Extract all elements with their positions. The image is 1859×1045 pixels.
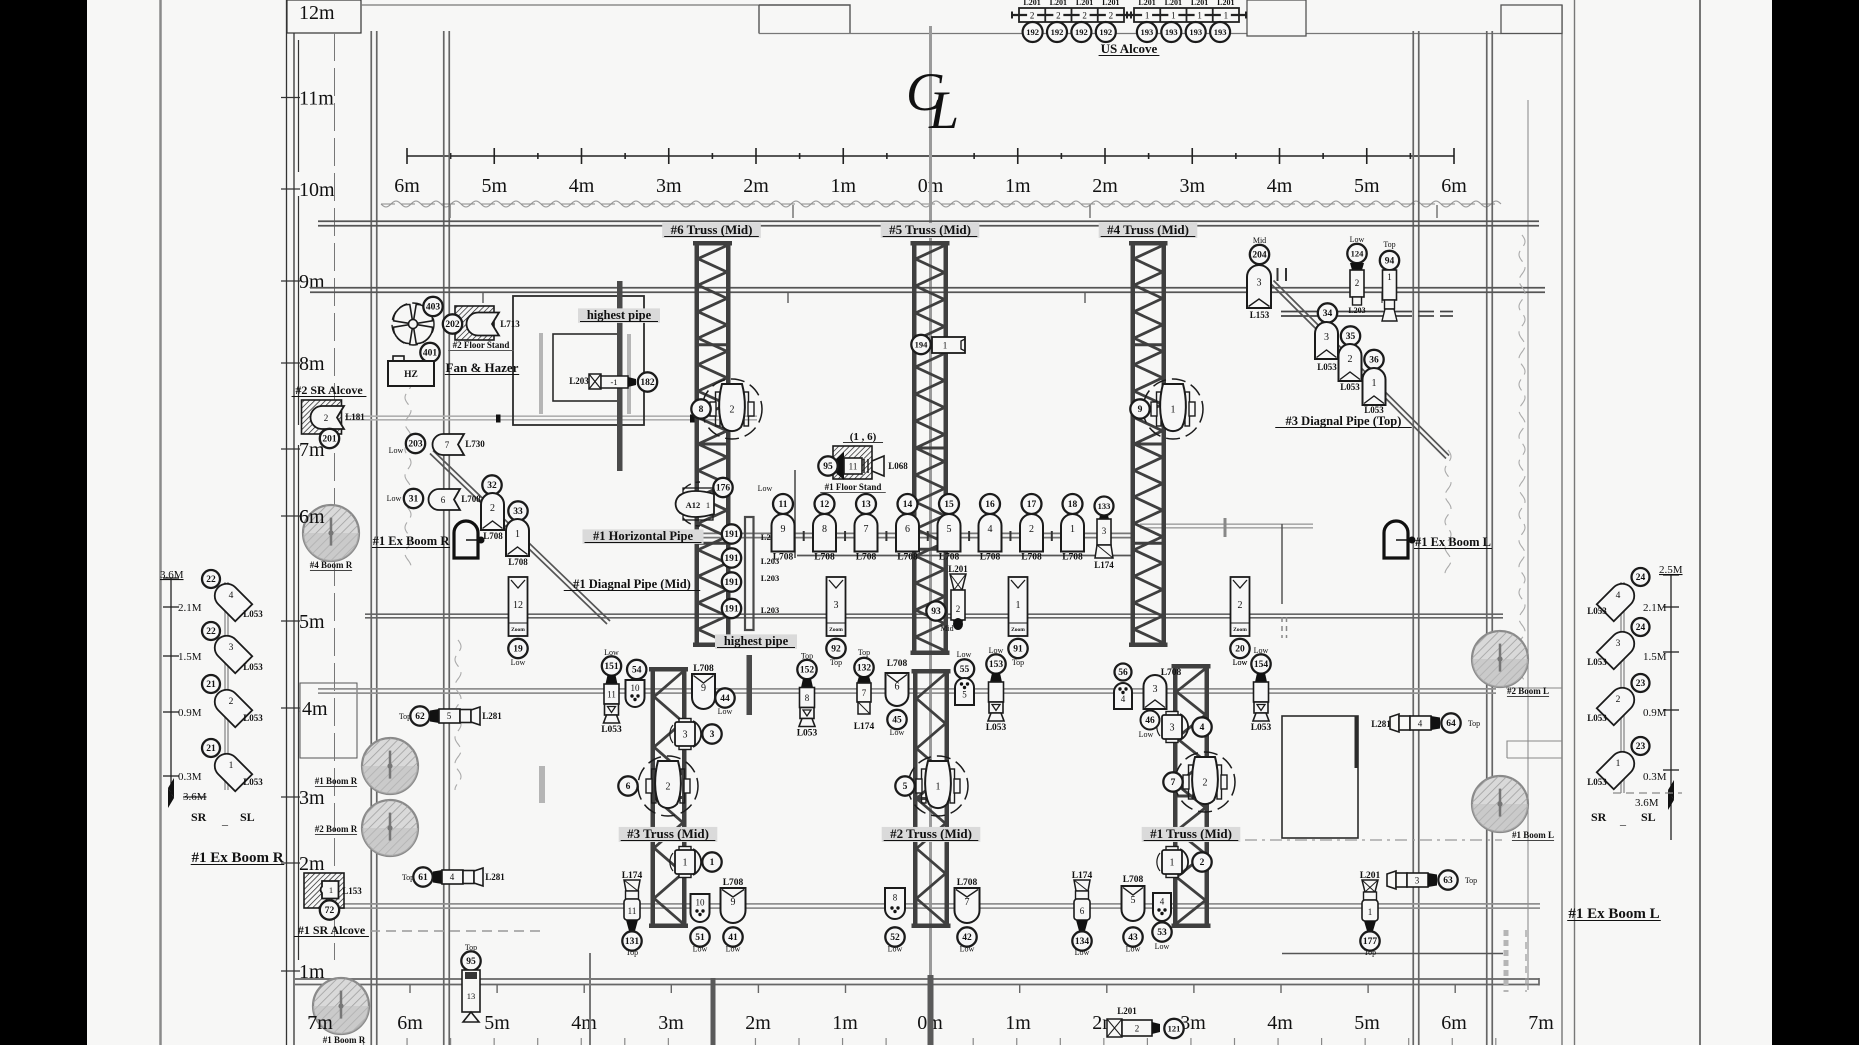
bottom edge meter ticks <box>410 985 1455 993</box>
svg-text:2: 2 <box>730 405 735 416</box>
gray pipe y418 dots <box>496 415 695 423</box>
US alcove strip 1 L201 labels <box>1023 0 1119 7</box>
svg-text:1: 1 <box>329 885 333 895</box>
pipe y616 (highest pipe) <box>365 614 1503 618</box>
left room gray bars <box>541 333 629 414</box>
floor stand #2 hatched box <box>455 306 494 340</box>
svg-text:31: 31 <box>409 495 419 505</box>
svg-text:22: 22 <box>206 575 216 585</box>
svg-text:#1 SR Alcove: #1 SR Alcove <box>298 923 366 937</box>
svg-text:L708: L708 <box>814 553 835 563</box>
truss #6 <box>693 241 732 647</box>
svg-text:5: 5 <box>947 524 952 535</box>
right ladder labels <box>1591 564 1683 827</box>
svg-text:2.5M: 2.5M <box>1659 564 1683 576</box>
highest pipe vertical bar <box>617 281 623 471</box>
row1 pipe tick marks <box>804 531 1052 541</box>
wavy curtain vertical x1448 <box>1445 450 1451 575</box>
right black margin bar <box>1772 0 1859 1045</box>
svg-text:Top: Top <box>1468 719 1480 728</box>
svg-text:Low: Low <box>957 650 972 659</box>
svg-text:2: 2 <box>1203 778 1208 789</box>
svg-text:#3 Diagnal Pipe (Top): #3 Diagnal Pipe (Top) <box>1286 414 1402 428</box>
svg-text:7: 7 <box>864 524 869 535</box>
svg-text:3: 3 <box>834 600 839 611</box>
left ruler label 9m <box>281 271 325 293</box>
fixture 56/4 <box>1115 664 1132 681</box>
svg-text:2: 2 <box>1056 10 1061 20</box>
right ladder measure line <box>1663 575 1679 840</box>
US alcove strip 2 circles 193 <box>1137 22 1157 42</box>
curtain line ticks <box>450 205 1437 218</box>
square fixture truss1 3/4 <box>1157 712 1212 743</box>
svg-text:Top: Top <box>626 948 638 957</box>
svg-text:93: 93 <box>931 607 941 617</box>
bottom tick row <box>364 1038 1496 1045</box>
label #3 Truss (Mid) <box>619 826 718 842</box>
svg-text:HZ: HZ <box>404 370 418 380</box>
zoom fixture 2/20 <box>1230 577 1249 667</box>
svg-text:L053: L053 <box>1340 382 1360 392</box>
svg-text:3: 3 <box>1153 684 1158 695</box>
svg-text:L053: L053 <box>1317 362 1337 372</box>
svg-text:2: 2 <box>324 413 329 423</box>
svg-text:5m: 5m <box>1354 1012 1380 1034</box>
svg-text:1: 1 <box>706 500 710 510</box>
row1 fixture ch15 num5 L708 <box>939 494 959 514</box>
svg-text:11: 11 <box>607 690 616 700</box>
svg-text:1: 1 <box>710 858 715 868</box>
svg-text:L203: L203 <box>761 573 779 583</box>
svg-text:Low: Low <box>389 446 404 455</box>
svg-text:2m: 2m <box>745 1012 771 1034</box>
svg-text:2: 2 <box>1348 354 1353 365</box>
svg-text:Low: Low <box>960 945 975 954</box>
boom #1 L circle <box>1472 776 1528 832</box>
191 circles column <box>722 524 741 543</box>
svg-text:5: 5 <box>903 782 908 792</box>
svg-text:34: 34 <box>1323 309 1333 319</box>
svg-text:L153: L153 <box>1250 310 1270 320</box>
svg-text:193: 193 <box>1165 27 1178 37</box>
dash-dot line y840 right <box>1245 839 1502 841</box>
fixture 61/4 L281 <box>402 867 505 886</box>
svg-text:Low: Low <box>1139 730 1154 739</box>
svg-text:7: 7 <box>965 897 970 908</box>
label (1,6) <box>843 431 883 443</box>
svg-text:2: 2 <box>1082 10 1087 20</box>
svg-text:22: 22 <box>206 627 216 637</box>
svg-text:L708: L708 <box>957 878 978 888</box>
svg-text:41: 41 <box>728 933 738 943</box>
svg-text:18: 18 <box>1068 500 1078 510</box>
svg-text:1: 1 <box>1224 10 1229 20</box>
svg-text:L053: L053 <box>1251 723 1272 733</box>
row1 fixture ch18 num1 L708 <box>1063 494 1083 514</box>
label highest pipe mid <box>715 634 797 649</box>
svg-text:#5 Truss (Mid): #5 Truss (Mid) <box>889 222 971 237</box>
svg-text:L708: L708 <box>483 531 503 541</box>
US alcove strip 2 (193) <box>1127 8 1246 22</box>
svg-text:#1 Ex Boom L: #1 Ex Boom L <box>1415 535 1491 549</box>
svg-text:182: 182 <box>640 378 655 388</box>
svg-text:1: 1 <box>1145 10 1150 20</box>
fixture 35/2 L053 diag <box>1341 326 1360 345</box>
left room rectangle <box>513 296 644 425</box>
label #1 Ex Boom L <box>1414 535 1492 549</box>
svg-text:L708: L708 <box>723 878 744 888</box>
svg-text:L730: L730 <box>465 439 485 449</box>
circle 95 floor stand <box>818 456 837 475</box>
svg-text:5: 5 <box>447 711 452 721</box>
svg-text:Low: Low <box>1155 942 1170 951</box>
svg-text:Zoom: Zoom <box>511 627 525 633</box>
svg-text:21: 21 <box>206 744 216 754</box>
square fixture truss3 1/1 <box>670 847 722 878</box>
svg-text:L053: L053 <box>1587 657 1607 667</box>
svg-text:3: 3 <box>1102 526 1107 536</box>
moving head truss4 ch9 <box>1130 379 1203 439</box>
svg-text:3: 3 <box>1415 876 1420 886</box>
left ruler label 5m <box>281 611 325 633</box>
svg-text:9m: 9m <box>299 271 325 293</box>
svg-text:14: 14 <box>903 500 913 510</box>
svg-text:L203: L203 <box>569 376 589 386</box>
svg-text:176: 176 <box>716 484 731 494</box>
left ladder measure line <box>163 578 179 808</box>
svg-text:1: 1 <box>515 529 520 540</box>
pipe y290 <box>310 288 1545 293</box>
truss #1 <box>1172 664 1211 928</box>
fixture 177/1 L201 <box>1360 871 1381 931</box>
svg-text:154: 154 <box>1254 660 1269 670</box>
svg-text:6m: 6m <box>299 506 325 528</box>
svg-text:1: 1 <box>1170 858 1175 869</box>
svg-text:42: 42 <box>962 933 972 943</box>
svg-text:8: 8 <box>893 892 898 902</box>
boom #4 R circle <box>303 505 359 561</box>
moving head truss3 ch6 <box>618 756 698 816</box>
ex boom R arch fixture <box>454 521 478 558</box>
svg-text:Low: Low <box>758 484 773 493</box>
label #1 Ex Boom R <box>372 534 450 548</box>
svg-text:152: 152 <box>800 666 815 676</box>
svg-text:4m: 4m <box>1267 1012 1293 1034</box>
svg-text:6m: 6m <box>1441 1012 1467 1034</box>
svg-text:3m: 3m <box>1179 175 1205 197</box>
svg-text:193: 193 <box>1214 27 1227 37</box>
svg-text:Low: Low <box>511 658 526 667</box>
svg-text:191: 191 <box>724 530 739 540</box>
svg-text:Low: Low <box>718 707 733 716</box>
svg-text:L708: L708 <box>897 553 918 563</box>
svg-text:194: 194 <box>915 339 929 349</box>
svg-text:L: L <box>928 80 959 140</box>
left ladder fixture 1 (ch 21) <box>210 749 252 791</box>
svg-text:124: 124 <box>1351 248 1365 258</box>
svg-text:61: 61 <box>418 873 428 883</box>
svg-text:2: 2 <box>1135 1024 1140 1034</box>
svg-text:4: 4 <box>1160 896 1165 906</box>
svg-text:9: 9 <box>701 683 706 694</box>
top center box <box>759 5 850 34</box>
svg-text:L053: L053 <box>243 609 263 619</box>
vertical pipe x749 (mid) <box>745 517 754 715</box>
svg-text:4m: 4m <box>571 1012 597 1034</box>
svg-text:L201: L201 <box>1102 0 1119 7</box>
svg-text:2: 2 <box>666 782 671 793</box>
right ladder fixture 3 (ch 24) <box>1597 627 1639 669</box>
svg-text:L201: L201 <box>1165 0 1182 7</box>
svg-text:2: 2 <box>1030 10 1035 20</box>
label #1 SR Alcove <box>294 923 369 937</box>
US alcove strip 1 circles 192 <box>1023 22 1043 42</box>
svg-text:1m: 1m <box>1005 1012 1031 1034</box>
top line left <box>361 4 759 6</box>
svg-text:401: 401 <box>423 349 438 359</box>
svg-text:L708: L708 <box>980 553 1001 563</box>
left ruler label 8m <box>281 353 325 375</box>
main vertical pipe x1416 right <box>1413 31 1419 1045</box>
12m label box <box>287 0 361 33</box>
left ruler label 7m <box>281 439 325 461</box>
svg-text:Low: Low <box>726 945 741 954</box>
svg-text:2: 2 <box>1616 695 1621 705</box>
left frame line <box>159 0 162 1045</box>
pipe y691 (mid row) <box>318 689 1496 693</box>
svg-text:2.1M: 2.1M <box>178 602 202 614</box>
svg-text:L708: L708 <box>773 553 794 563</box>
thin vertical x795 <box>794 470 796 558</box>
wavy curtain vertical x1522 <box>1519 235 1525 685</box>
svg-text:43: 43 <box>1128 933 1138 943</box>
square fixture truss1 1/2 <box>1157 847 1212 878</box>
fixture 51/10 <box>691 894 710 922</box>
svg-text:1: 1 <box>1616 759 1621 769</box>
svg-text:Zoom: Zoom <box>829 627 843 633</box>
svg-text:403: 403 <box>426 303 441 313</box>
right ladder fixture 2 (ch 23) <box>1597 683 1639 725</box>
svg-text:1: 1 <box>1070 524 1075 535</box>
svg-text:Zoom: Zoom <box>1011 627 1025 633</box>
fixture 151/11 L053 <box>601 648 622 735</box>
svg-text:7: 7 <box>1171 778 1176 788</box>
svg-text:5: 5 <box>1131 895 1136 906</box>
svg-text:15: 15 <box>944 500 954 510</box>
svg-text:3: 3 <box>229 643 234 653</box>
svg-text:9: 9 <box>1138 405 1143 415</box>
svg-text:13: 13 <box>861 500 871 510</box>
svg-text:3.6M: 3.6M <box>183 791 207 803</box>
svg-text:L201: L201 <box>1138 0 1155 7</box>
svg-text:45: 45 <box>892 716 902 726</box>
svg-text:5: 5 <box>962 690 967 700</box>
svg-text:2: 2 <box>229 697 234 707</box>
svg-text:Top: Top <box>858 648 870 657</box>
label #1 Boom L <box>1512 830 1554 841</box>
svg-text:Low: Low <box>888 945 903 954</box>
svg-text:51: 51 <box>695 933 705 943</box>
wavy curtain line <box>381 201 1501 207</box>
fixture 93/2 L201 center <box>948 564 968 630</box>
svg-text:6: 6 <box>905 524 910 535</box>
label US Alcove <box>1099 41 1160 56</box>
right frame line x1574 <box>1574 0 1576 1045</box>
boom #2 L circle <box>1472 631 1528 687</box>
svg-text:192: 192 <box>1099 27 1112 37</box>
right ladder pole <box>1621 582 1624 793</box>
svg-text:6: 6 <box>626 782 631 792</box>
svg-text:L053: L053 <box>243 777 263 787</box>
svg-text:Low: Low <box>387 494 402 503</box>
svg-text:11m: 11m <box>299 88 334 110</box>
svg-text:L281: L281 <box>482 711 502 721</box>
svg-text:0.3M: 0.3M <box>178 771 202 783</box>
fixture 53/4 <box>1153 893 1171 921</box>
svg-text:L708: L708 <box>939 553 960 563</box>
bracket on pipe y290 right <box>1278 268 1287 281</box>
svg-text:4: 4 <box>1121 694 1126 704</box>
floor stand #1 hatched box <box>833 446 872 479</box>
svg-text:5m: 5m <box>481 175 507 197</box>
svg-text:L203: L203 <box>761 605 779 615</box>
bottom vertical line x590 <box>589 953 591 1045</box>
4m white box <box>300 683 357 758</box>
label #2 Floor Stand <box>448 340 514 351</box>
moving head truss1 ch7 <box>1163 752 1235 812</box>
svg-text:4: 4 <box>1200 723 1205 733</box>
label #4 Boom R <box>310 560 353 571</box>
svg-text:(1 , 6): (1 , 6) <box>850 431 877 443</box>
left ladder pole <box>225 582 228 790</box>
truss #5 <box>911 241 950 655</box>
svg-text:131: 131 <box>625 937 640 947</box>
svg-text:2: 2 <box>956 604 961 614</box>
fixture 152/8 L053 <box>797 652 818 739</box>
svg-text:Low: Low <box>1233 658 1248 667</box>
svg-text:1.5M: 1.5M <box>178 651 202 663</box>
left ruler label 1m <box>281 961 325 983</box>
svg-text:2: 2 <box>1200 858 1205 868</box>
svg-text:7: 7 <box>862 688 867 698</box>
svg-text:L203: L203 <box>1348 306 1365 315</box>
svg-text:11: 11 <box>849 462 858 472</box>
svg-text:L053: L053 <box>243 662 263 672</box>
svg-text:L708: L708 <box>1062 553 1083 563</box>
right box top segment <box>1506 687 1562 689</box>
ex boom L arch fixture <box>1384 521 1408 558</box>
left ruler inner segments <box>298 40 300 960</box>
zoom fixture 3/92 <box>826 577 845 667</box>
svg-text:L053: L053 <box>601 725 622 735</box>
svg-text:L708: L708 <box>693 664 714 674</box>
svg-text:8m: 8m <box>299 353 325 375</box>
left ruler label 2m <box>281 853 325 875</box>
svg-text:5m: 5m <box>484 1012 510 1034</box>
svg-text:56: 56 <box>1118 668 1128 678</box>
row1 fixture ch17 num2 L708 <box>1022 494 1042 514</box>
svg-text:1: 1 <box>229 761 234 771</box>
svg-text:11: 11 <box>628 906 637 916</box>
svg-text:L708: L708 <box>1123 875 1144 885</box>
svg-text:2m: 2m <box>299 853 325 875</box>
svg-text:#1 Horizontal Pipe: #1 Horizontal Pipe <box>593 529 693 543</box>
row1 fixture ch13 num7 L708 <box>856 494 876 514</box>
horizontal pipe y535.5 (#1 Horizontal Pipe) <box>691 533 1135 537</box>
svg-text:#1 Boom R: #1 Boom R <box>323 1035 366 1045</box>
svg-text:L053: L053 <box>1587 606 1607 616</box>
svg-text:92: 92 <box>831 645 841 655</box>
fixture 134/6 L174 <box>1072 871 1093 931</box>
svg-text:SL: SL <box>240 810 255 824</box>
svg-text:1: 1 <box>1368 907 1373 917</box>
svg-text:Top: Top <box>1012 658 1024 667</box>
svg-text:L708: L708 <box>1021 553 1042 563</box>
svg-text:63: 63 <box>1443 876 1453 886</box>
pipe y313 right (diag top area) <box>1281 312 1453 317</box>
svg-text:1m: 1m <box>830 175 856 197</box>
svg-text:#1 Ex Boom R: #1 Ex Boom R <box>191 850 283 866</box>
row1 fixture ch14 num6 L708 <box>898 494 918 514</box>
svg-text:Top: Top <box>830 658 842 667</box>
svg-text:1: 1 <box>1016 600 1021 611</box>
svg-text:-1: -1 <box>610 377 617 387</box>
label #6 Truss (Mid) <box>662 222 761 238</box>
svg-text:10m: 10m <box>299 179 335 201</box>
fan symbol <box>390 301 436 347</box>
svg-text:3m: 3m <box>299 787 325 809</box>
svg-text:23: 23 <box>1636 742 1646 752</box>
svg-text:L201: L201 <box>1191 0 1208 7</box>
label #1 Boom R <box>315 776 358 787</box>
left black margin bar <box>0 0 87 1045</box>
circle 202 <box>443 314 462 333</box>
svg-text:L708: L708 <box>1161 668 1182 678</box>
svg-text:192: 192 <box>1075 27 1088 37</box>
svg-text:204: 204 <box>1252 251 1267 261</box>
svg-text:L708: L708 <box>461 494 481 504</box>
left ladder fixture 3 (ch 22) <box>210 631 252 673</box>
svg-text:L281: L281 <box>1371 719 1391 729</box>
svg-text:L174: L174 <box>854 722 875 732</box>
svg-text:L201: L201 <box>1050 0 1067 7</box>
svg-text:L713: L713 <box>500 319 520 329</box>
circle 176 <box>713 478 732 497</box>
svg-text:1: 1 <box>683 858 688 869</box>
svg-text:3m: 3m <box>656 175 682 197</box>
main vertical pipe x374 left <box>371 31 377 1045</box>
fixture 131/11 L174 down <box>622 871 643 931</box>
svg-text:1m: 1m <box>1005 175 1031 197</box>
svg-text:2m: 2m <box>743 175 769 197</box>
main vertical pipe x446 <box>444 31 450 1045</box>
label #1 Boom R bottom <box>323 1035 366 1045</box>
bottom stage edge double line <box>295 978 1539 986</box>
gray pipe segment y526 right <box>1140 524 1313 528</box>
svg-text:95: 95 <box>466 957 476 967</box>
svg-text:10: 10 <box>631 683 641 693</box>
zoom fixture 1/91 <box>1008 577 1027 667</box>
left ruler label 3m <box>281 787 325 809</box>
label #2 SR Alcove <box>292 383 367 397</box>
svg-text:16: 16 <box>985 500 995 510</box>
left ruler label 4m <box>281 698 325 720</box>
svg-text:121: 121 <box>1168 1023 1181 1033</box>
svg-text:L201: L201 <box>1023 0 1040 7</box>
svg-text:3: 3 <box>1324 332 1329 343</box>
svg-text:191: 191 <box>724 578 739 588</box>
left ruler label 10m <box>281 179 335 201</box>
